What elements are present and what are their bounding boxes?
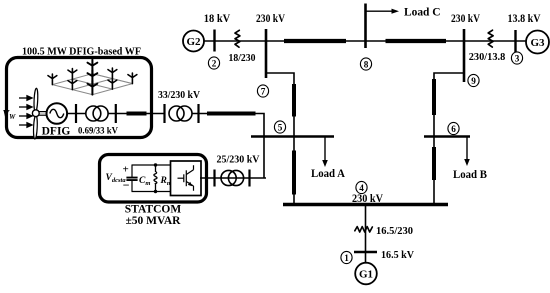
transformer squiggle 18/230: [235, 30, 240, 47]
wind turbine w8: [108, 79, 117, 90]
line 8-9 (thick): [386, 39, 447, 43]
turbine lattice grid: [52, 74, 132, 95]
svg-text:230 kV: 230 kV: [451, 13, 481, 25]
generator G3 circle: [526, 31, 549, 54]
DFIG generator circle: [47, 103, 68, 124]
generator G2 circle: [183, 31, 204, 52]
svg-text:100.5 MW DFIG-based WF: 100.5 MW DFIG-based WF: [22, 46, 141, 58]
transformer squiggle 16.5/230: [355, 227, 373, 232]
wire bus7 jog to line 7-5: [266, 73, 294, 137]
bus 2 tick: [213, 30, 215, 52]
wind turbine w9: [128, 73, 137, 84]
node 2: [208, 57, 219, 69]
bus 9: [463, 29, 466, 82]
bus 4 bar: [283, 203, 448, 207]
transformer 25/230 kV: [221, 170, 236, 185]
bus 8: [364, 4, 367, 49]
svg-text:8: 8: [364, 60, 369, 70]
node 4: [356, 181, 367, 193]
wire to bus 5 drop: [192, 114, 264, 178]
bus 1 tick: [354, 251, 377, 254]
svg-text:18/230: 18/230: [229, 52, 256, 64]
svg-text:STATCOM: STATCOM: [125, 204, 182, 216]
svg-text:Load A: Load A: [311, 166, 345, 180]
wind turbine w6: [108, 68, 117, 79]
svg-text:13.8 kV: 13.8 kV: [508, 13, 542, 25]
wire bus4 to G1: [365, 206, 367, 263]
svg-text:230 kV: 230 kV: [352, 193, 384, 205]
line 5-4 thin: [293, 137, 295, 204]
transformer 0.69/33 kV: [86, 106, 101, 121]
turbine shaft: [39, 112, 47, 116]
node 3: [511, 52, 522, 64]
svg-text:6: 6: [451, 124, 456, 134]
wind turbine w5 (center): [88, 70, 98, 84]
svg-text:9: 9: [471, 76, 476, 86]
svg-text:3: 3: [515, 54, 520, 64]
wire bus9 jog to line 9-6: [434, 73, 464, 137]
STATCOM box: [100, 155, 207, 203]
IGBT converter box: [171, 161, 202, 196]
line 6-4 thin: [433, 137, 435, 204]
node 1: [341, 251, 352, 263]
svg-text:+: +: [123, 164, 129, 176]
dc link wires: [132, 165, 171, 192]
svg-text:±50 MVAR: ±50 MVAR: [126, 215, 182, 227]
svg-text:Load C: Load C: [404, 5, 441, 19]
junction dots: [154, 163, 157, 166]
line 5-4 (thick): [292, 151, 296, 195]
wind turbine w7 (bottom): [88, 81, 98, 95]
svg-text:33/230 kV: 33/230 kV: [158, 89, 200, 101]
bus tick: [75, 104, 77, 123]
wind turbine w3 (top): [88, 60, 98, 74]
wind farm box: [7, 58, 152, 138]
bus tick: [248, 170, 250, 187]
Load C arrow: [366, 10, 393, 12]
svg-text:16.5/230: 16.5/230: [376, 225, 413, 237]
wire DFIG to transformer: [67, 113, 86, 115]
Load A arrow: [324, 137, 326, 162]
wire transformer to box edge: [108, 113, 164, 115]
svg-text:1: 1: [344, 253, 349, 263]
svg-text:G2: G2: [186, 36, 201, 48]
bus tick: [163, 104, 165, 123]
bus tick: [213, 170, 215, 187]
svg-text:230 kV: 230 kV: [256, 13, 286, 25]
turbine rotor blades: [33, 88, 38, 139]
top wire G2 to G3: [204, 40, 526, 42]
node 7: [257, 85, 268, 97]
svg-text:2: 2: [212, 59, 217, 69]
bus 3 tick: [514, 30, 516, 52]
transformer 33/230 kV: [169, 106, 184, 121]
wind turbine w2: [68, 69, 77, 80]
node 8: [360, 58, 371, 70]
wind turbine w1: [48, 74, 57, 85]
svg-text:G3: G3: [530, 37, 545, 49]
wind arrows: [19, 96, 32, 127]
svg-text:230/13.8: 230/13.8: [469, 51, 506, 63]
svg-text:4: 4: [359, 183, 364, 193]
svg-text:16.5 kV: 16.5 kV: [381, 249, 414, 261]
Load B arrow: [466, 137, 468, 161]
transformer squiggle 230/13.8: [488, 30, 493, 47]
node 9: [468, 74, 479, 86]
turbine hub: [32, 110, 39, 117]
WF collector cable (thick): [127, 112, 147, 116]
svg-text:G1: G1: [359, 269, 373, 281]
line 7-8 (thick): [284, 39, 346, 43]
svg-text:18 kV: 18 kV: [204, 13, 231, 25]
svg-text:Load B: Load B: [453, 167, 487, 181]
WF line cable (thick): [207, 112, 256, 116]
wind turbine w4: [68, 79, 77, 90]
svg-text:0.69/33 kV: 0.69/33 kV: [78, 127, 118, 137]
capacitor Cm: [131, 165, 133, 192]
bus 7: [265, 29, 268, 78]
bus 5 bar: [251, 135, 334, 138]
node 5: [274, 121, 285, 133]
node 6: [448, 122, 459, 134]
svg-text:25/230 kV: 25/230 kV: [217, 154, 260, 166]
svg-text:DFIG: DFIG: [42, 126, 71, 138]
bus 6 bar: [424, 135, 470, 138]
svg-text:5: 5: [278, 123, 283, 133]
line 7-5 (thick): [292, 84, 296, 117]
resistor Rm: [154, 165, 157, 192]
line 6-4 (thick): [432, 147, 436, 180]
IGBT symbol: [178, 165, 194, 190]
wire STATCOM to transformer: [200, 177, 266, 179]
line 9-6 (thick): [432, 79, 436, 115]
generator G1 circle: [355, 263, 377, 285]
bus tick: [115, 104, 117, 123]
bus tick: [197, 104, 199, 123]
svg-text:7: 7: [261, 87, 266, 97]
